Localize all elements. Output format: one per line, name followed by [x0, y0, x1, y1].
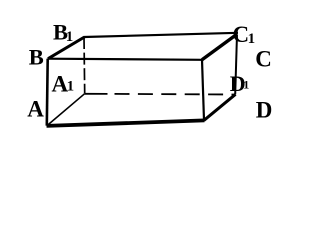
edge A1D1 (hidden, dashed horizontal, long first dash)	[85, 93, 108, 95]
svg-text:C: C	[255, 46, 272, 71]
svg-text:1: 1	[66, 29, 74, 45]
edge C1D1 (back right vertical)	[235, 35, 237, 95]
edge AD (front bottom horizontal, thick)	[47, 120, 205, 126]
edge CD (front right vertical)	[202, 60, 204, 121]
edge A1B1 (hidden, dashed vertical)	[83, 37, 86, 94]
edge DD1 (depth diagonal, thick)	[204, 94, 236, 120]
svg-text:D: D	[256, 97, 273, 122]
svg-text:1: 1	[248, 31, 256, 47]
edge BC (front top horizontal)	[48, 59, 203, 60]
svg-text:1: 1	[67, 79, 75, 95]
svg-text:1: 1	[243, 78, 249, 92]
edge B1C1 (back top horizontal)	[84, 33, 238, 37]
edge AA1 (depth diagonal, thin)	[47, 94, 85, 126]
edge AB (front left vertical)	[45, 59, 49, 126]
svg-text:A: A	[27, 96, 44, 121]
edge BB1 (depth diagonal, thick)	[48, 37, 85, 59]
edge CC1 (depth diagonal, thick)	[202, 35, 237, 60]
svg-text:B: B	[29, 44, 44, 69]
